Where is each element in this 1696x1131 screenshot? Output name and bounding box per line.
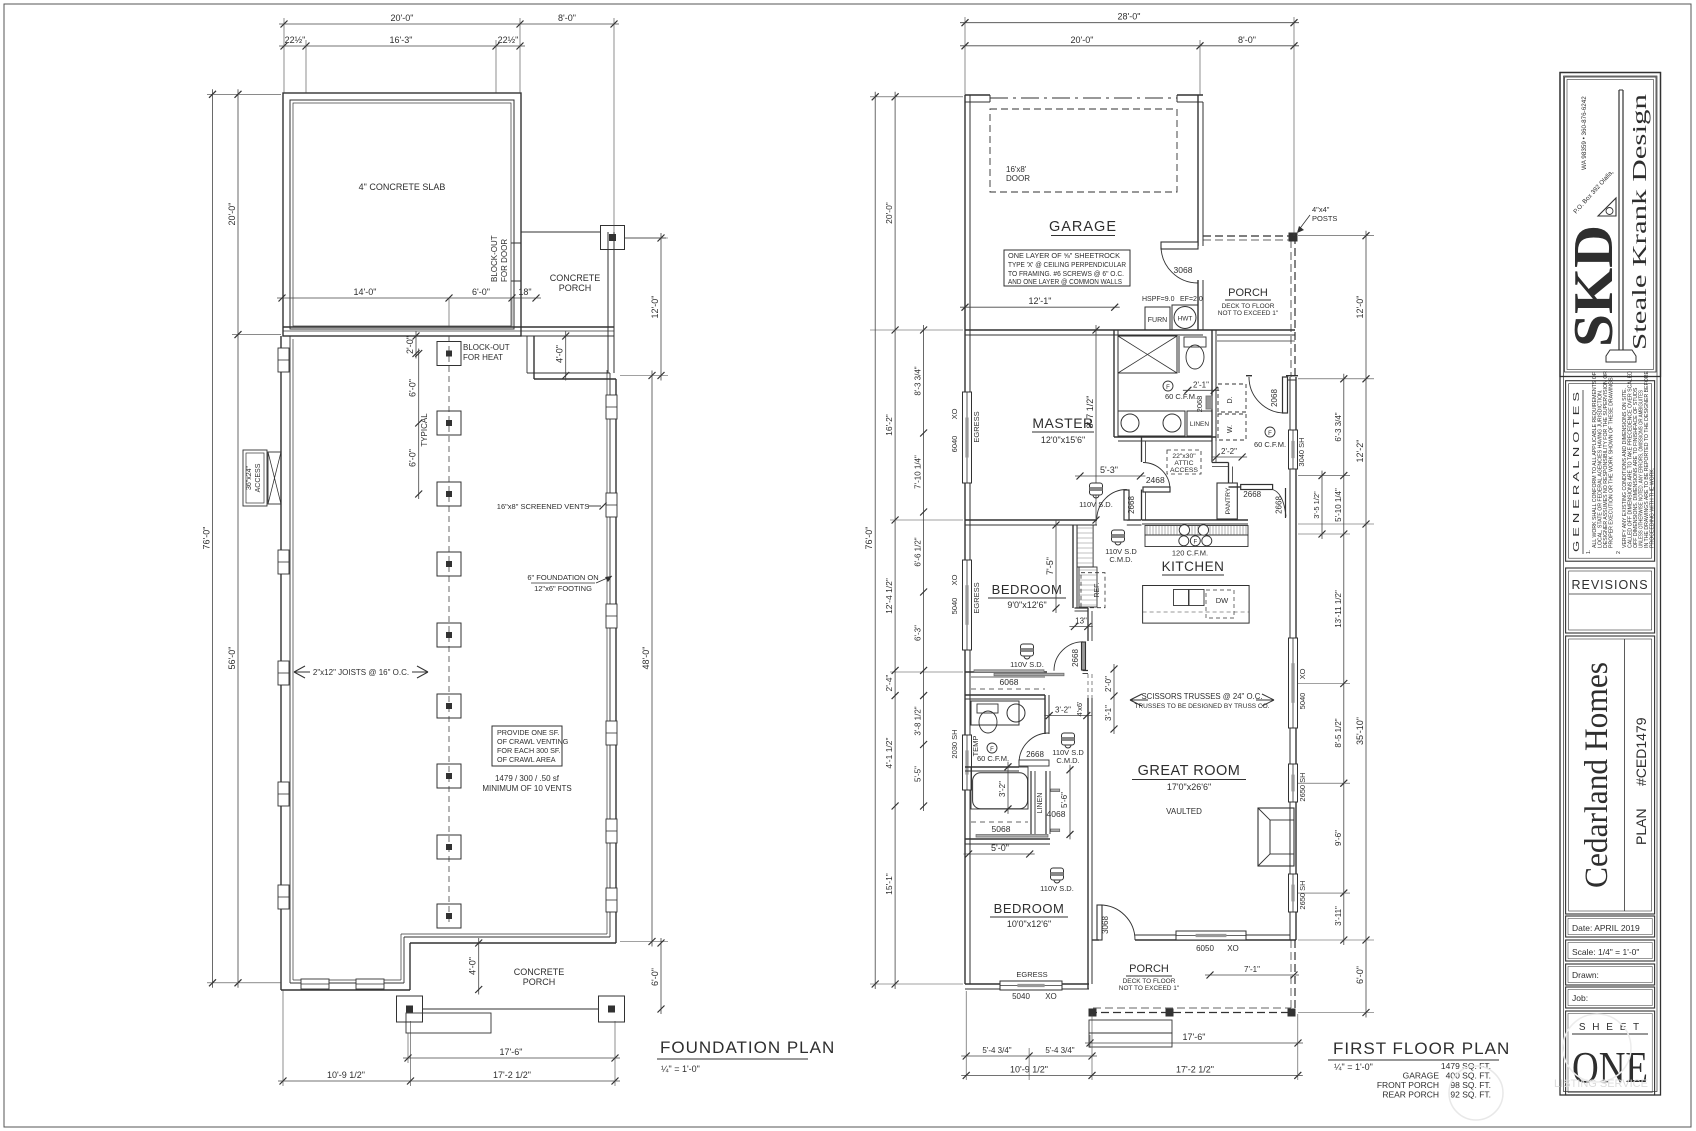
bath2 door 2668	[1019, 733, 1049, 766]
bedroom2 south wall	[965, 984, 1089, 989]
master south wall	[965, 520, 1142, 525]
label master window	[950, 408, 981, 452]
svg-text:GARAGE: GARAGE	[1049, 219, 1117, 235]
svg-text:NOT TO EXCEED 1": NOT TO EXCEED 1"	[1119, 985, 1180, 992]
svg-text:2'-0": 2'-0"	[405, 336, 415, 354]
foundation right wall screened vents	[606, 395, 617, 912]
svg-text:KITCHEN: KITCHEN	[1162, 559, 1225, 574]
dim porch 7-1	[1205, 965, 1299, 979]
steale krank design	[1629, 94, 1651, 350]
bath2 east wall	[1045, 695, 1049, 734]
fan kitchen entry	[1254, 427, 1286, 449]
plan number	[1633, 717, 1649, 845]
furnace	[1145, 307, 1170, 330]
garage overhead door dashed	[990, 109, 1177, 192]
label 6050	[1196, 944, 1239, 953]
bedroom2 east wall	[1088, 940, 1092, 989]
dim ff bottom 17-6	[1085, 1032, 1303, 1047]
svg-text:4'-1 1/2": 4'-1 1/2"	[884, 737, 894, 768]
svg-text:3'-1": 3'-1"	[1104, 705, 1113, 721]
svg-text:GARAGE: GARAGE	[1403, 1071, 1440, 1081]
svg-text:60 C.F.M.: 60 C.F.M.	[977, 754, 1009, 763]
svg-text:CONCRETE: CONCRETE	[514, 967, 565, 977]
label 2650a	[1298, 772, 1307, 801]
svg-text:DOOR: DOOR	[1006, 174, 1030, 183]
svg-text:6'-6 1/2": 6'-6 1/2"	[914, 537, 923, 566]
svg-text:AND ONE LAYER @ COMMON WALLS: AND ONE LAYER @ COMMON WALLS	[1008, 279, 1122, 286]
window bedroom2 5040	[1000, 981, 1062, 990]
svg-text:3'-5 1/2": 3'-5 1/2"	[1312, 491, 1321, 519]
bedroom1 door 2668	[1054, 642, 1086, 671]
refrigerator	[1081, 573, 1105, 608]
svg-text:13'-11 1/2": 13'-11 1/2"	[1334, 590, 1343, 628]
svg-text:5040: 5040	[1012, 992, 1030, 1001]
date box	[1566, 916, 1655, 937]
svg-text:F: F	[1193, 539, 1197, 545]
svg-text:2'-4": 2'-4"	[884, 675, 894, 692]
kitchen north wall	[1142, 520, 1248, 524]
label hspf	[1142, 296, 1203, 303]
label 4in concrete slab	[359, 182, 446, 192]
cedarland homes text	[1579, 662, 1615, 888]
svg-text:LINEN: LINEN	[1190, 421, 1209, 428]
svg-text:DECK TO FLOOR: DECK TO FLOOR	[1222, 303, 1275, 310]
dim 2-0 3-1 chain	[1104, 664, 1118, 734]
foundation bottom porch pier left	[397, 996, 423, 1022]
label 4068	[1047, 809, 1066, 819]
svg-text:Job:: Job:	[1572, 993, 1588, 1003]
svg-text:2668: 2668	[1127, 496, 1136, 514]
foundation vent count note	[482, 774, 571, 793]
rear entry wall	[1246, 376, 1298, 380]
dim 5-6	[1060, 765, 1074, 840]
garage bottom wall	[965, 330, 1203, 335]
svg-text:SKD: SKD	[1563, 225, 1625, 347]
svg-text:6'-0": 6'-0"	[408, 449, 418, 467]
hall west wall2	[1083, 608, 1093, 940]
foundation bottom porch pier right	[599, 996, 625, 1022]
dim foundation top 20-0 and 8-0	[279, 13, 619, 28]
svg-text:2668: 2668	[1026, 750, 1044, 759]
svg-text:Date: APRIL 2019: Date: APRIL 2019	[1572, 923, 1640, 933]
foundation bottom wall vents	[301, 979, 384, 989]
label concrete porch top	[550, 273, 601, 293]
revisions box	[1566, 568, 1655, 633]
svg-text:6'-3 3/4": 6'-3 3/4"	[1334, 412, 1343, 441]
svg-text:TYPE 'X' @ CEILING PERPENDICUL: TYPE 'X' @ CEILING PERPENDICULAR	[1008, 262, 1126, 269]
svg-text:12"x6" FOOTING: 12"x6" FOOTING	[534, 584, 592, 593]
foundation pier P8	[437, 835, 461, 859]
svg-text:13": 13"	[1075, 617, 1087, 626]
window gr 3040	[1289, 430, 1298, 469]
bath2 vanity	[971, 701, 1025, 733]
svg-text:XO: XO	[1045, 992, 1057, 1001]
foundation top dim extension lines	[284, 18, 614, 232]
svg-text:22½": 22½"	[285, 35, 306, 45]
foundation pier P9	[437, 904, 461, 928]
svg-text:110V S.D.: 110V S.D.	[1010, 660, 1044, 669]
svg-text:17'0"x26'6": 17'0"x26'6"	[1167, 782, 1211, 792]
svg-text:35'-10": 35'-10"	[1355, 717, 1365, 745]
closet south wall	[965, 695, 1045, 699]
svg-text:12'-0": 12'-0"	[1355, 296, 1365, 319]
svg-text:8'-5 1/2": 8'-5 1/2"	[1334, 718, 1343, 747]
svg-text:FIRST FLOOR PLAN: FIRST FLOOR PLAN	[1333, 1039, 1510, 1058]
svg-text:4" CONCRETE SLAB: 4" CONCRETE SLAB	[359, 182, 446, 192]
svg-text:HSPF=9.0: HSPF=9.0	[1142, 296, 1175, 303]
svg-text:PORCH: PORCH	[1228, 287, 1268, 299]
master shower	[1118, 336, 1177, 373]
ff right dim extension lines	[1298, 236, 1374, 1013]
svg-text:8'-7 1/2": 8'-7 1/2"	[1085, 396, 1095, 429]
master vanity	[1118, 411, 1185, 436]
svg-text:2: 2	[1616, 551, 1622, 554]
svg-text:20'-0": 20'-0"	[884, 202, 894, 224]
svg-text:F: F	[990, 747, 994, 753]
foundation right dim extension lines	[620, 238, 668, 942]
linen closet	[1187, 411, 1212, 436]
svg-text:OF CRAWL AREA: OF CRAWL AREA	[497, 755, 556, 764]
label garage door 16x8	[1006, 165, 1030, 183]
label bedroom1	[988, 582, 1066, 610]
svg-text:48'-0": 48'-0"	[641, 647, 651, 670]
svg-text:PORCH: PORCH	[559, 283, 592, 293]
dim bath2 3-2	[1044, 706, 1092, 720]
window master 6040	[963, 392, 972, 483]
svg-text:20'-0": 20'-0"	[1071, 35, 1094, 45]
bath west wall	[1114, 330, 1118, 437]
svg-text:S H E E T: S H E E T	[1579, 1022, 1641, 1033]
svg-text:TRUSSES TO BE DESIGNED BY TRUS: TRUSSES TO BE DESIGNED BY TRUSS CO.	[1135, 703, 1270, 710]
dim garage 12-1	[960, 296, 1120, 311]
foundation top concrete porch edge	[521, 232, 666, 373]
svg-text:6'-0": 6'-0"	[472, 287, 490, 297]
svg-text:17'-6": 17'-6"	[1183, 1032, 1206, 1042]
bath mid wall	[1178, 336, 1180, 373]
svg-text:¼" = 1'-0": ¼" = 1'-0"	[661, 1064, 700, 1074]
svg-text:C.M.D.: C.M.D.	[1109, 555, 1132, 564]
foundation crawlspace wall outline	[281, 336, 616, 990]
svg-text:1479 SQ. FT.: 1479 SQ. FT.	[1441, 1061, 1491, 1071]
svg-text:BLOCK-OUT: BLOCK-OUT	[463, 343, 510, 352]
svg-text:4'-0": 4'-0"	[468, 957, 478, 975]
dim ff right chainB	[1355, 231, 1370, 1018]
svg-text:BEDROOM: BEDROOM	[994, 901, 1065, 916]
master toilet	[1184, 337, 1206, 369]
watermark	[1449, 1014, 1648, 1120]
garage side door 3068	[1161, 242, 1198, 283]
foundation bottom stoop	[406, 1013, 491, 1033]
svg-text:3'-8 1/2": 3'-8 1/2"	[914, 706, 923, 735]
svg-text:EF=2.0: EF=2.0	[1180, 296, 1203, 303]
svg-text:5'-5": 5'-5"	[914, 766, 923, 782]
foundation access hatch 36x24	[243, 450, 281, 506]
svg-text:7'-1": 7'-1"	[1244, 965, 1260, 974]
window gr 2650b	[1289, 874, 1298, 912]
svg-text:CONCRETE: CONCRETE	[550, 273, 601, 283]
svg-text:BEDROOM: BEDROOM	[992, 582, 1063, 597]
svg-text:GREAT ROOM: GREAT ROOM	[1138, 763, 1241, 779]
washer dryer	[1218, 384, 1246, 440]
svg-text:17'-2 1/2": 17'-2 1/2"	[1176, 1064, 1214, 1074]
svg-text:22"x30": 22"x30"	[1172, 453, 1196, 460]
svg-text:PLAN: PLAN	[1633, 808, 1649, 845]
dim ff right chainA	[1334, 374, 1348, 945]
dim foundation right 48-0	[641, 371, 656, 947]
svg-text:XO: XO	[1227, 944, 1239, 953]
label block-out for door	[490, 235, 521, 282]
dim ff left chain2	[884, 92, 899, 989]
garage right wall	[1198, 95, 1203, 330]
master door 2668	[1097, 490, 1136, 521]
svg-text:2468: 2468	[1146, 475, 1165, 485]
garage front wall	[965, 95, 1203, 102]
svg-text:6'-0": 6'-0"	[1355, 966, 1365, 984]
svg-text:3'-2": 3'-2"	[998, 781, 1007, 797]
svg-text:OF CRAWL VENTING: OF CRAWL VENTING	[497, 737, 569, 746]
title foundation plan	[657, 1038, 835, 1074]
svg-text:16'x8': 16'x8'	[1006, 165, 1027, 174]
svg-text:10'-9 1/2": 10'-9 1/2"	[327, 1070, 365, 1080]
svg-text:110V S.D.: 110V S.D.	[1079, 500, 1113, 509]
svg-text:4'-0": 4'-0"	[555, 345, 565, 363]
smoke detector bedroom2	[1040, 868, 1074, 893]
closet bypass 5068	[971, 822, 1048, 837]
svg-text:56'-0": 56'-0"	[227, 647, 237, 670]
label 3040sh	[1297, 437, 1306, 466]
house right exterior wall	[1290, 377, 1296, 940]
svg-text:Drawn:: Drawn:	[1572, 970, 1599, 980]
svg-text:20'-0": 20'-0"	[391, 13, 414, 23]
SKD big letters	[1563, 225, 1625, 347]
fan bath2	[977, 743, 1009, 763]
svg-text:VAULTED: VAULTED	[1166, 807, 1202, 816]
dim ff bottom 5-4 pair	[961, 1046, 1097, 1060]
laundry east wall	[1212, 330, 1216, 441]
svg-text:8'-0": 8'-0"	[558, 13, 576, 23]
label block-out for heat	[463, 343, 510, 362]
laundry pocket door	[1195, 396, 1212, 413]
svg-text:3040 SH: 3040 SH	[1297, 437, 1306, 466]
foundation pier P1	[437, 342, 461, 366]
dim tub 3-2	[998, 762, 1012, 814]
label 4x6	[1075, 701, 1084, 717]
svg-text:PANTRY: PANTRY	[1225, 487, 1232, 514]
label 16x8 screened vents	[497, 502, 607, 511]
svg-text:12'-2": 12'-2"	[1355, 440, 1365, 463]
title block outer frame	[1560, 73, 1661, 1096]
svg-text:12'-0": 12'-0"	[650, 296, 660, 319]
foundation porch pier	[601, 226, 625, 250]
svg-text:FOUNDATION PLAN: FOUNDATION PLAN	[660, 1038, 835, 1057]
front porch post	[1289, 233, 1297, 241]
dim foundation porch 4-0	[468, 938, 483, 995]
svg-text:LINEN: LINEN	[1037, 793, 1044, 814]
rear porch posts	[1089, 1009, 1295, 1016]
front porch bottom wall	[1203, 330, 1295, 341]
label front porch	[1218, 287, 1279, 317]
garage door header dashline	[990, 97, 1177, 99]
dim ref 7-5	[1045, 520, 1060, 613]
svg-text:2668: 2668	[1243, 490, 1261, 499]
bedroom2 closet wall	[965, 839, 1050, 844]
bath2 south wall	[965, 767, 1049, 771]
ff bottom dim extension lines	[966, 991, 1298, 1080]
foundation pier P7	[437, 764, 461, 788]
svg-text:2668: 2668	[1071, 649, 1080, 667]
great room south wall	[1092, 935, 1296, 940]
svg-text:W.: W.	[1227, 425, 1234, 433]
rear porch steps	[1089, 1020, 1172, 1047]
svg-text:POSTS: POSTS	[1312, 214, 1337, 223]
label master	[1032, 415, 1094, 445]
svg-text:FURN: FURN	[1148, 317, 1167, 324]
svg-text:16'-2": 16'-2"	[884, 414, 894, 436]
smoke detector master hall	[1079, 483, 1113, 509]
svg-text:XO: XO	[950, 574, 959, 585]
label 4x4 posts	[1297, 205, 1337, 233]
foundation garage bottom wall	[283, 327, 614, 336]
dim foundation bottom 17-6	[403, 1047, 620, 1062]
svg-text:12'-1": 12'-1"	[1029, 296, 1052, 306]
svg-text:ACCESS: ACCESS	[1170, 467, 1198, 474]
svg-text:92 SQ. FT.: 92 SQ. FT.	[1450, 1090, 1491, 1100]
foundation garage slab wall outline	[283, 93, 521, 336]
svg-text:2'-2": 2'-2"	[1221, 447, 1237, 456]
dim bedroom2 5-0	[964, 843, 1035, 858]
foundation pier P2	[437, 411, 461, 435]
smoke detector hall2	[1052, 733, 1084, 765]
svg-text:PROVIDE ONE SF.: PROVIDE ONE SF.	[497, 728, 559, 737]
svg-text:EGRESS: EGRESS	[972, 582, 981, 613]
svg-text:SCISSORS TRUSSES @ 24" O.C.: SCISSORS TRUSSES @ 24" O.C.	[1141, 692, 1262, 701]
svg-text:2'-1": 2'-1"	[1193, 380, 1209, 389]
svg-text:76'-0": 76'-0"	[202, 527, 212, 550]
rear entry door 2068	[1249, 377, 1288, 413]
window bedroom1 5040	[963, 560, 972, 650]
svg-text:20'-0": 20'-0"	[227, 203, 237, 226]
dim ff 3-5	[1312, 471, 1326, 539]
svg-text:5040: 5040	[950, 598, 959, 615]
svg-text:5'-0": 5'-0"	[991, 843, 1009, 853]
svg-text:MINIMUM OF 10 VENTS: MINIMUM OF 10 VENTS	[482, 784, 571, 793]
svg-text:10'0"x12'6": 10'0"x12'6"	[1007, 919, 1051, 929]
label great room	[1132, 763, 1246, 816]
attic access	[1167, 450, 1201, 474]
svg-text:17'-2 1/2": 17'-2 1/2"	[493, 1070, 531, 1080]
svg-text:2030 SH: 2030 SH	[950, 729, 959, 758]
svg-text:3'-11": 3'-11"	[1334, 906, 1343, 926]
bath south wall	[1114, 437, 1216, 441]
svg-text:4'x6': 4'x6'	[1075, 701, 1084, 717]
foundation bottom dim extension lines	[283, 990, 615, 1086]
svg-text:TYPICAL: TYPICAL	[420, 413, 429, 447]
pantry	[1217, 483, 1237, 519]
label 120 cfm	[1172, 549, 1208, 558]
svg-text:6068: 6068	[1000, 677, 1019, 687]
svg-text:ATTIC: ATTIC	[1174, 460, 1193, 467]
sheet box	[1566, 1011, 1655, 1095]
svg-text:¼" = 1'-0": ¼" = 1'-0"	[1334, 1062, 1373, 1072]
dim foundation top 22.5 16-3 22.5	[279, 35, 525, 50]
label bedroom1 window	[950, 574, 981, 614]
fan laundry	[1163, 381, 1197, 401]
dim ff left chain3	[914, 325, 928, 811]
job box	[1566, 987, 1655, 1008]
rear door 3068	[1097, 905, 1135, 940]
svg-text:FOR EACH 300 SF.: FOR EACH 300 SF.	[497, 746, 561, 755]
svg-text:DW: DW	[1216, 596, 1229, 605]
svg-text:WA 98359 • 360-876-6242: WA 98359 • 360-876-6242	[1581, 96, 1588, 170]
svg-text:FOR DOOR: FOR DOOR	[500, 239, 509, 282]
svg-text:2"x12" JOISTS @ 16" O.C.: 2"x12" JOISTS @ 16" O.C.	[313, 668, 409, 677]
svg-text:2650 SH: 2650 SH	[1298, 880, 1307, 909]
cedarland box	[1566, 636, 1655, 914]
svg-text:5'-4 3/4": 5'-4 3/4"	[982, 1046, 1011, 1055]
svg-text:NOT TO EXCEED 1": NOT TO EXCEED 1"	[1218, 310, 1279, 317]
window greatroom 6050	[1176, 931, 1246, 940]
dim foundation 2-0 heat	[405, 331, 420, 359]
svg-text:2650 SH: 2650 SH	[1298, 772, 1307, 801]
svg-text:Steale Krank Design: Steale Krank Design	[1629, 94, 1651, 350]
general notes box	[1566, 381, 1655, 562]
label kitchen	[1162, 559, 1225, 575]
svg-text:14'-0": 14'-0"	[354, 287, 377, 297]
svg-text:PORCH: PORCH	[523, 977, 556, 987]
svg-text:22½": 22½"	[498, 35, 519, 45]
pantry door 2668	[1229, 485, 1287, 519]
dim ff top 20-0 8-0	[960, 35, 1299, 50]
svg-text:3068: 3068	[1174, 265, 1193, 275]
label concrete porch bottom	[514, 967, 565, 987]
svg-text:9'0"x12'6": 9'0"x12'6"	[1007, 600, 1046, 610]
plan number divider	[1624, 639, 1626, 911]
smoke detector bedroom1	[1010, 644, 1044, 669]
svg-text:6" FOUNDATION ON: 6" FOUNDATION ON	[527, 573, 598, 582]
SKD address	[1572, 96, 1615, 216]
dim foundation bottom 10-9 17-2	[278, 1070, 620, 1085]
svg-text:7'-10 1/4": 7'-10 1/4"	[914, 455, 923, 489]
closet bypass 6068	[971, 670, 1064, 689]
scale box	[1566, 940, 1655, 961]
svg-text:5'-4 3/4": 5'-4 3/4"	[1045, 1046, 1074, 1055]
svg-text:6050: 6050	[1196, 944, 1214, 953]
svg-text:D.: D.	[1227, 396, 1234, 403]
svg-text:PORCH: PORCH	[1129, 963, 1169, 975]
foundation bottom porch edge	[422, 943, 616, 1009]
svg-text:FOR HEAT: FOR HEAT	[463, 353, 503, 362]
dim hall door 5-3	[1075, 465, 1145, 480]
dim foundation slab 14-0 6-0 18	[277, 287, 541, 327]
svg-text:G E N E R A L N O T E S: G E N E R A L N O T E S	[1572, 392, 1581, 552]
linen2	[1031, 771, 1060, 834]
svg-text:Scale: 1/4" = 1'-0": Scale: 1/4" = 1'-0"	[1572, 947, 1639, 957]
svg-text:12'0"x15'6": 12'0"x15'6"	[1041, 435, 1085, 445]
foundation left dim extension lines	[207, 94, 281, 983]
svg-text:REVISIONS: REVISIONS	[1571, 578, 1648, 592]
svg-text:4"x4": 4"x4"	[1312, 205, 1330, 214]
svg-text:60 C.F.M.: 60 C.F.M.	[1165, 392, 1197, 401]
svg-text:BLOCK-OUT: BLOCK-OUT	[490, 235, 499, 282]
svg-text:6'-0": 6'-0"	[408, 379, 418, 397]
bath2 tub	[971, 767, 1028, 809]
svg-text:1479 / 300 / .50 sf: 1479 / 300 / .50 sf	[495, 774, 560, 783]
hall west wall	[1142, 437, 1146, 520]
area table	[1377, 1061, 1491, 1100]
hall east wall	[1212, 441, 1233, 483]
window gr 5040	[1289, 638, 1298, 728]
svg-text:8'-0": 8'-0"	[1238, 35, 1256, 45]
